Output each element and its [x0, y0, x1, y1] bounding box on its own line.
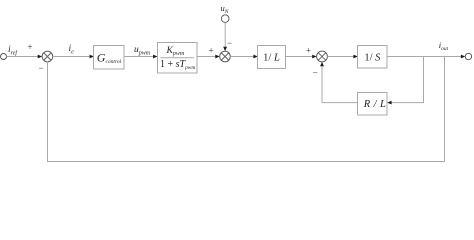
block R/L: [358, 93, 388, 116]
summing junction S2: [220, 51, 231, 62]
wire outer feedback loop: [48, 57, 445, 162]
block 1/L: [258, 46, 286, 69]
svg-text:+: +: [306, 45, 311, 55]
svg-text:−: −: [227, 38, 232, 48]
svg-text:R / L: R / L: [363, 99, 386, 110]
wire S1 to G_control: [53, 55, 94, 59]
input terminal i_ref: [1, 54, 7, 60]
wire u_N to S2: [223, 22, 227, 51]
wire S3 to 1/S block: [327, 55, 357, 59]
svg-text:+: +: [208, 45, 213, 55]
wire 1/S to output terminal: [387, 55, 465, 59]
output terminal i_out: [465, 53, 471, 59]
wire input to summing junction S1: [7, 55, 43, 59]
wire R/L to S3: [320, 62, 357, 103]
block G_control: [94, 46, 125, 70]
wire G_control to PWM block: [124, 55, 158, 59]
node branch to R/L: [387, 57, 423, 105]
input terminal u_N: [221, 15, 229, 23]
svg-text:+: +: [27, 42, 32, 52]
svg-text:−: −: [313, 67, 318, 77]
summing junction S1: [42, 51, 53, 62]
block 1/S: [358, 46, 388, 69]
wire 1/L to summing junction S3: [286, 55, 317, 59]
wire PWM block to summing junction S2: [197, 55, 220, 59]
block K_pwm/(1+sT_pwm): [158, 43, 198, 74]
svg-text:1/ S: 1/ S: [364, 52, 381, 63]
summing junction S3: [317, 51, 328, 62]
wire S2 to 1/L block: [230, 55, 257, 59]
svg-text:1/ L: 1/ L: [263, 52, 280, 63]
svg-text:−: −: [38, 63, 43, 73]
